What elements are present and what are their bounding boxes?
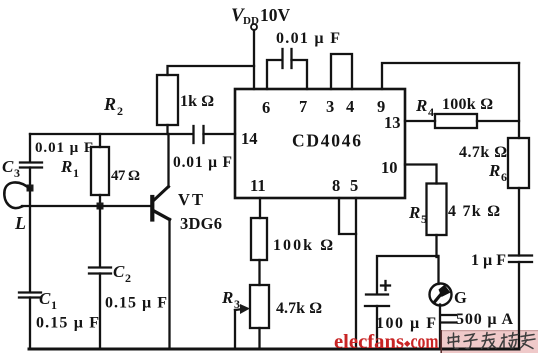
svg-text:2: 2: [125, 271, 131, 285]
wire pin13 to R4: [405, 120, 435, 122]
transistor VT base bar: [150, 197, 154, 220]
meter G wedge: [439, 285, 451, 297]
svg-text:4 7k Ω: 4 7k Ω: [448, 203, 500, 220]
wire R3 bottom to rail: [258, 328, 260, 349]
watermark box: [442, 330, 538, 353]
svg-text:100k Ω: 100k Ω: [442, 96, 493, 113]
svg-text:L: L: [14, 213, 26, 233]
svg-text:C: C: [113, 262, 125, 281]
transistor VT emitter diagonal: [153, 211, 170, 220]
node L top junction: [27, 185, 34, 192]
svg-text:4: 4: [428, 105, 434, 119]
capacitor 100uF plates: [366, 293, 388, 295]
wire node to collector: [167, 134, 169, 187]
capacitor C1 plates: [19, 291, 41, 293]
wire C3 to L node: [29, 168, 31, 189]
wire C3 top stem: [29, 134, 31, 162]
wire R6 to 1uF: [518, 188, 520, 256]
svg-text:3: 3: [326, 97, 334, 116]
wire pin5 to rail: [355, 198, 357, 349]
svg-text:1: 1: [51, 298, 57, 312]
svg-text:4.7k Ω: 4.7k Ω: [276, 300, 322, 317]
wire cap to pin14: [204, 133, 236, 135]
capacitor C3 plates: [20, 161, 42, 163]
svg-text:3: 3: [14, 166, 20, 180]
svg-text:G: G: [454, 288, 467, 307]
wire pin7 stub: [292, 60, 308, 89]
svg-text:6: 6: [501, 170, 507, 184]
svg-text:500 µ A: 500 µ A: [456, 311, 513, 328]
wire emitter to rail: [168, 219, 170, 349]
svg-text:elecfans: elecfans: [334, 332, 404, 353]
100uF plus sign: [381, 284, 390, 286]
svg-text:4.7k Ω: 4.7k Ω: [459, 144, 507, 161]
svg-text:1: 1: [73, 166, 79, 180]
capacitor C2 plates: [89, 266, 111, 268]
svg-text:13: 13: [384, 113, 401, 132]
resistor R1 47ohm body: [91, 147, 109, 195]
svg-text:100 µ F: 100 µ F: [376, 315, 436, 332]
wire R1 bottom stub: [99, 195, 101, 206]
svg-text:DD: DD: [243, 15, 259, 27]
wire pin9 to top right: [382, 63, 519, 89]
svg-text:3: 3: [234, 297, 240, 311]
resistor R5 4.7k body: [427, 184, 447, 236]
watermark CJK strokes: [448, 333, 535, 349]
wire base line: [22, 205, 150, 207]
wire pins 3-4 loop: [331, 54, 352, 89]
watermark divider: [440, 330, 442, 353]
inductor L loop: [4, 182, 30, 208]
wire R3 wiper to rail: [234, 310, 236, 349]
wire R4 to right vertical: [477, 120, 519, 122]
wire R1 top stub: [99, 134, 101, 147]
wire pin11 stub: [259, 198, 261, 218]
svg-text:com: com: [411, 332, 439, 353]
wire L node down to C1: [29, 188, 31, 292]
wire pin8 stub: [339, 198, 356, 234]
VDD terminal: [251, 24, 257, 30]
wire C2 stem: [99, 206, 101, 267]
svg-text:1 µ F: 1 µ F: [471, 252, 506, 269]
wire R5 to meter: [435, 235, 437, 257]
meter scale bars: [442, 314, 456, 316]
node R1-base junction: [97, 203, 104, 210]
wire meter to rail: [439, 305, 441, 350]
wire cap branch horizontal: [377, 256, 438, 294]
svg-text:R: R: [488, 161, 500, 180]
svg-text:C: C: [39, 289, 51, 308]
svg-text:6: 6: [262, 98, 270, 117]
wire pin10 to R5: [405, 165, 437, 184]
wire 100k to R3: [258, 260, 260, 285]
capacitor 0.01uF timing plates: [281, 49, 283, 68]
wire bottom rail: [29, 348, 519, 351]
svg-text:10: 10: [381, 158, 398, 177]
svg-text:R: R: [103, 94, 116, 114]
svg-text:1k Ω: 1k Ω: [180, 93, 214, 110]
meter G needle: [435, 293, 443, 302]
R3 wiper arrow: [235, 309, 243, 310]
potentiometer R3 body: [250, 285, 269, 328]
svg-text:R: R: [221, 288, 233, 307]
svg-text:47 Ω: 47 Ω: [111, 168, 140, 184]
wire R2 bottom to node: [166, 125, 168, 134]
svg-text:R: R: [60, 157, 72, 176]
svg-text:11: 11: [250, 176, 266, 195]
svg-text:C: C: [2, 157, 14, 176]
transistor Q VT collector diagonal: [153, 187, 169, 202]
resistor 100k body (pin11): [251, 218, 267, 260]
svg-text:8: 8: [332, 176, 340, 195]
svg-text:4: 4: [346, 97, 354, 116]
svg-text:5: 5: [421, 212, 427, 226]
wire VDD to R2 top: [168, 66, 255, 75]
wire pin6 stub: [267, 60, 282, 89]
svg-text:3DG6: 3DG6: [180, 214, 222, 233]
IC U1 CD4046 box: [235, 89, 405, 198]
svg-text:10V: 10V: [260, 5, 291, 25]
svg-text:0.15 µ F: 0.15 µ F: [36, 315, 99, 332]
wire right vertical upper: [518, 63, 520, 138]
resistor R2 1k body: [157, 75, 178, 125]
svg-text:14: 14: [241, 129, 258, 148]
resistor R4 100k body: [435, 114, 477, 128]
wire 1uF to rail: [518, 262, 520, 349]
svg-text:2: 2: [117, 104, 123, 118]
svg-text:0.01 µ F: 0.01 µ F: [173, 154, 232, 171]
svg-text:0.01 µ F: 0.01 µ F: [35, 140, 93, 156]
capacitor 1uF plates: [509, 254, 532, 256]
svg-text:R: R: [415, 96, 427, 115]
wire C1 to rail: [29, 298, 31, 350]
svg-text:0.15 µ F: 0.15 µ F: [105, 295, 167, 312]
wire 100uF to rail: [376, 306, 378, 349]
meter G circle: [430, 284, 452, 306]
wire feedback line left: [30, 133, 193, 135]
wire C2 to rail: [99, 274, 101, 350]
wire VDD stem: [253, 30, 255, 89]
resistor R6 4.7k body: [508, 138, 529, 188]
svg-text:7: 7: [299, 97, 307, 116]
svg-text:R: R: [408, 203, 420, 222]
svg-text:5: 5: [350, 176, 358, 195]
capacitor 0.01uF series plates: [192, 126, 194, 143]
